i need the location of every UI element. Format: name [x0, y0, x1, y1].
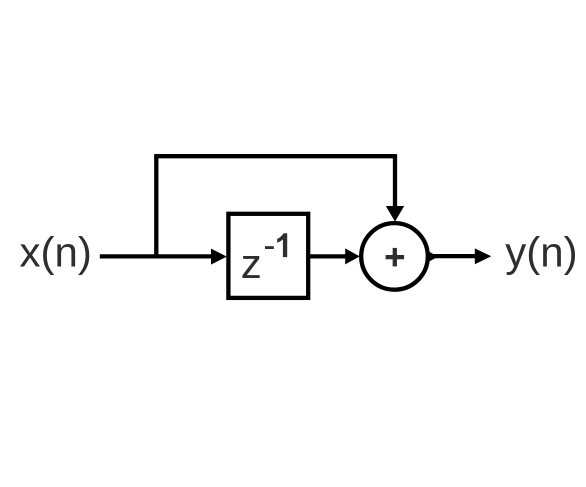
node: branch junction on input line: [154, 156, 158, 256]
svg-text:y(n): y(n): [505, 228, 577, 275]
wire: feedforward vertical down into adder: [393, 154, 397, 206]
arrowhead to y(n): [475, 248, 492, 264]
superscript digit 1 of z^-1: [277, 233, 287, 257]
svg-text:x(n): x(n): [20, 228, 92, 275]
wire: feedforward top line: [154, 154, 395, 158]
wire: delay block output to adder: [309, 254, 348, 258]
node: output flare where wire leaves adder: [428, 251, 438, 262]
arrowhead into left of adder: [345, 248, 360, 264]
wire: output line from adder: [430, 254, 477, 258]
wire: branch vertical up: [154, 156, 158, 256]
adder S1 (summing junction circle): [361, 223, 428, 290]
svg-text:z-: z-: [241, 224, 276, 287]
arrowhead into delay block: [211, 249, 227, 265]
delay block Z1 (unit delay z^-1): [228, 214, 308, 298]
arrowhead into top of adder: [386, 206, 404, 222]
wire: input line from x(n) to delay block: [100, 254, 213, 258]
plus sign inside adder: [386, 248, 405, 267]
